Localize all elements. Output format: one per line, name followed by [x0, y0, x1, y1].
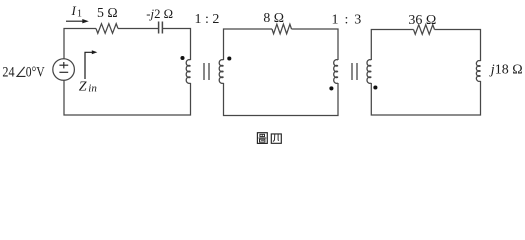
- svg-text:1 : 2: 1 : 2: [195, 12, 220, 27]
- svg-text:in: in: [88, 83, 97, 95]
- svg-text:24: 24: [2, 64, 15, 80]
- svg-text:I: I: [71, 3, 77, 18]
- svg-text:j18 Ω: j18 Ω: [489, 62, 523, 77]
- svg-text:5 Ω: 5 Ω: [97, 5, 118, 20]
- svg-text:1: 1: [77, 9, 82, 20]
- svg-text:-j2 Ω: -j2 Ω: [146, 7, 173, 21]
- svg-text:8 Ω: 8 Ω: [263, 10, 284, 25]
- svg-text:0°V: 0°V: [26, 64, 45, 80]
- svg-text:36 Ω: 36 Ω: [408, 13, 436, 28]
- svg-text:1 : 3: 1 : 3: [332, 12, 363, 27]
- svg-text:Z: Z: [79, 79, 87, 94]
